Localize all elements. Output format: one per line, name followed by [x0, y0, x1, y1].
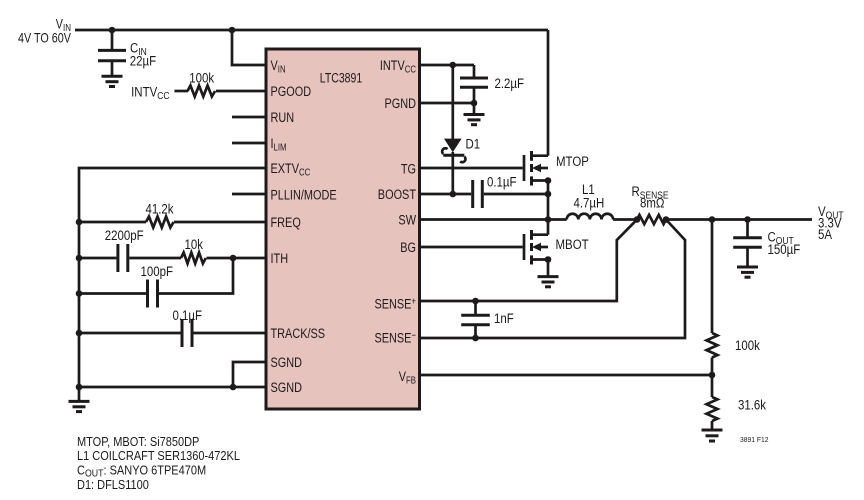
- wire TG pin to MTOP gate: [419, 167, 523, 170]
- junction BOOST cap node: [545, 191, 552, 198]
- IC U1 LTC3891 body: [266, 49, 420, 409]
- wire VFB pin: [419, 374, 712, 377]
- svg-text:MBOT: MBOT: [556, 237, 589, 252]
- ground 31.6k: [702, 430, 723, 441]
- junction TRACK/SS tap on bus: [76, 330, 83, 337]
- junction RSENSE left: [634, 216, 641, 223]
- node VOUT label: [818, 204, 844, 242]
- label L1: [574, 182, 605, 211]
- svg-text:ITH: ITH: [271, 251, 289, 267]
- wire 100k top: [711, 220, 714, 334]
- svg-text:SENSE+: SENSE+: [374, 296, 416, 312]
- svg-text:MTOP, MBOT: Si7850DP: MTOP, MBOT: Si7850DP: [77, 435, 200, 449]
- junction SW node: [545, 216, 552, 223]
- transistor MTOP Si7850DP: [524, 151, 548, 186]
- junction MBOT source: [545, 256, 552, 263]
- wire ILIM stub: [232, 142, 266, 145]
- wire R100k to PGOOD pin: [216, 90, 266, 93]
- junction CIN tap: [109, 27, 116, 34]
- resistor R 10k: [181, 253, 206, 264]
- wire RUN stub: [232, 116, 266, 119]
- ground SGND: [69, 401, 90, 411]
- note text block: [77, 435, 240, 492]
- wire 10k to ITH pin: [207, 257, 267, 260]
- wire PLLIN/MODE stub: [232, 193, 266, 196]
- svg-text:BOOST: BOOST: [378, 187, 416, 203]
- wire BOOST to switch node: [484, 193, 548, 196]
- wire L1 to RSENSE: [613, 218, 637, 221]
- resistor RSENSE 8mOhm: [637, 215, 666, 224]
- capacitor 100pF: [148, 280, 158, 308]
- ground MBOT: [538, 277, 559, 287]
- svg-text:D1: D1: [466, 137, 481, 152]
- svg-text:FREQ: FREQ: [271, 215, 302, 231]
- svg-text:D1: DFLS1100: D1: DFLS1100: [77, 478, 149, 492]
- wire FREQ left segment: [79, 221, 146, 224]
- junction ITH tap on bus: [76, 255, 83, 262]
- ground PGND: [464, 115, 485, 125]
- junction VFB: [709, 372, 716, 379]
- svg-text:SGND: SGND: [271, 380, 303, 396]
- wire VOUT rail: [666, 218, 812, 221]
- svg-text:TRACK/SS: TRACK/SS: [271, 326, 326, 342]
- svg-text:22µF: 22µF: [130, 54, 157, 69]
- wire COUT stem: [746, 220, 749, 238]
- wire VIN input rail: [75, 29, 548, 32]
- junction BOOST/D1: [450, 191, 457, 198]
- junction VOUT/COUT: [744, 216, 751, 223]
- svg-text:2200pF: 2200pF: [105, 228, 144, 243]
- svg-text:100pF: 100pF: [141, 264, 174, 279]
- resistor 100k (feedback top): [707, 333, 718, 358]
- junction bus bottom: [76, 384, 83, 391]
- junction ITH/100pF: [230, 255, 237, 262]
- wire BG pin to MBOT gate: [419, 246, 523, 249]
- label RSENSE: [632, 184, 669, 211]
- svg-text:MTOP: MTOP: [556, 154, 589, 169]
- svg-text:BG: BG: [400, 240, 416, 256]
- wire SW pin to L1: [419, 218, 567, 221]
- svg-text:3891 F12: 3891 F12: [740, 436, 769, 444]
- capacitor COUT 150uF: [733, 238, 762, 267]
- wire FREQ right segment: [174, 221, 266, 224]
- wire EXTVCC to left bus: [79, 168, 266, 387]
- junction 1nF top: [472, 298, 479, 305]
- resistor 100k (PGOOD pullup): [188, 86, 216, 97]
- svg-text:0.1µF: 0.1µF: [173, 308, 203, 323]
- label COUT 150uF: [768, 230, 801, 258]
- wire kelvin sense-: [419, 220, 685, 339]
- label CIN 22uF: [130, 41, 157, 69]
- svg-text:41.2k: 41.2k: [146, 201, 175, 216]
- wire between 2200pF and 10k: [129, 257, 181, 260]
- junction FREQ tap on bus: [76, 219, 83, 226]
- junction SGND: [230, 384, 237, 391]
- junction PGND: [471, 100, 478, 107]
- capacitor 2200pF: [118, 244, 128, 272]
- ground below CIN: [102, 76, 123, 86]
- junction RSENSE right: [663, 216, 670, 223]
- wire D1 anode from INTVCC: [451, 65, 454, 139]
- wire 31.6k to ground: [711, 421, 714, 430]
- svg-text:0.1µF: 0.1µF: [487, 175, 517, 190]
- svg-text:100k: 100k: [189, 71, 215, 86]
- svg-text:SGND: SGND: [271, 355, 303, 371]
- transistor MBOT Si7850DP: [524, 230, 548, 265]
- wire CIN stem: [111, 30, 114, 50]
- svg-text:2.2µF: 2.2µF: [495, 76, 525, 91]
- svg-text:5A: 5A: [818, 227, 833, 242]
- svg-text:LTC3891: LTC3891: [320, 70, 362, 86]
- wire MBOT source to ground: [547, 260, 550, 277]
- wire ITH left segment: [79, 257, 116, 260]
- resistor 31.6k: [707, 397, 718, 421]
- junction 1nF bottom: [472, 335, 479, 342]
- wire 31.6k top: [711, 375, 714, 397]
- junction VOUT/100k: [709, 216, 716, 223]
- wire PGND pin: [419, 102, 474, 105]
- ground COUT: [737, 267, 758, 277]
- svg-text:L1 COILCRAFT SER1360-472KL: L1 COILCRAFT SER1360-472KL: [77, 449, 240, 463]
- capacitor 1nF: [461, 301, 490, 338]
- wire ground stem: [78, 387, 81, 401]
- wire kelvin sense+: [419, 220, 637, 302]
- svg-text:10k: 10k: [185, 237, 204, 252]
- node VIN label: [18, 16, 72, 45]
- svg-text:31.6k: 31.6k: [738, 398, 767, 413]
- resistor R 41.2k: [146, 217, 174, 228]
- svg-text:1nF: 1nF: [494, 311, 514, 326]
- wire cap 2.2uF stem: [473, 65, 476, 78]
- wire 100pF left segment: [79, 292, 146, 295]
- svg-text:TG: TG: [401, 161, 416, 177]
- diode D1 schottky: [442, 139, 465, 163]
- inductor L1 4.7uH: [567, 214, 613, 220]
- wire cap to PGND: [473, 87, 476, 103]
- junction 100pF tap on bus: [76, 290, 83, 297]
- wire 100k bottom to VFB: [711, 358, 714, 376]
- wire PGND ground stem: [473, 103, 476, 115]
- svg-text:RUN: RUN: [271, 110, 295, 126]
- capacitor CIN 22uF: [98, 50, 126, 76]
- svg-text:PLLIN/MODE: PLLIN/MODE: [271, 187, 337, 203]
- wire INTVCC pin to cap: [419, 64, 474, 67]
- wire SGND lower pin to bus: [79, 386, 266, 389]
- svg-text:100k: 100k: [735, 338, 761, 353]
- svg-text:4V TO 60V: 4V TO 60V: [18, 30, 72, 45]
- wire SGND upper pin: [233, 362, 266, 387]
- wire D1 cathode to BOOST: [451, 152, 454, 194]
- capacitor 0.1uF (BOOST): [473, 180, 483, 208]
- svg-text:SW: SW: [398, 212, 416, 228]
- svg-text:SENSE−: SENSE−: [374, 330, 416, 346]
- svg-text:PGND: PGND: [384, 96, 416, 112]
- capacitor 0.1uF (TRACK/SS): [182, 319, 192, 347]
- svg-text:150µF: 150µF: [768, 242, 801, 257]
- capacitor 2.2uF: [460, 78, 488, 87]
- svg-text:8mΩ: 8mΩ: [640, 196, 665, 211]
- wire VIN branch to pin: [229, 27, 236, 34]
- svg-text:4.7µH: 4.7µH: [574, 196, 605, 211]
- wire INTVCC to R 100k: [175, 90, 189, 93]
- svg-text:PGOOD: PGOOD: [271, 84, 312, 100]
- junction INTVCC/D1: [450, 62, 457, 69]
- wire BOOST pin segment: [419, 193, 471, 196]
- junction MTOP source: [545, 177, 552, 184]
- wire ITH to 100pF branch: [159, 258, 233, 294]
- wire 0.1uF to TRACK/SS pin: [194, 332, 267, 335]
- wire VIN down to MTOP drain: [547, 30, 550, 156]
- wire TRACK/SS left segment: [79, 332, 181, 335]
- wire MTOP source to MBOT drain: [547, 181, 550, 235]
